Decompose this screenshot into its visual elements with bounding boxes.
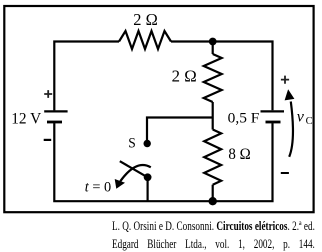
wire: top-right from resistor to corner and down to capacitor + plate — [171, 42, 273, 111]
wire: middle branch from top node down to 2 ohm resistor — [212, 42, 214, 55]
wire: left branch from battery + up to top-left corner and right to resistor — [54, 42, 119, 111]
switch lower contact dot — [144, 173, 152, 181]
svg-text:12 V: 12 V — [11, 111, 41, 128]
svg-text:0,5 F: 0,5 F — [228, 109, 260, 126]
battery 12V: positive long plate — [44, 110, 67, 112]
vC reference curved arrow shaft — [289, 102, 293, 157]
svg-text:2 Ω: 2 Ω — [133, 10, 158, 29]
battery - polarity mark — [44, 139, 52, 141]
battery + polarity mark — [44, 90, 52, 98]
switch S blade (open, tilted left) — [120, 161, 148, 177]
vC arrow head — [285, 89, 295, 100]
svg-text:2 Ω: 2 Ω — [172, 67, 197, 86]
battery 12V: negative short plate — [47, 121, 62, 124]
switch arrow head — [115, 179, 125, 189]
svg-text:8 Ω: 8 Ω — [228, 144, 250, 163]
citation line 2 — [112, 237, 315, 252]
capacitor + polarity mark — [281, 76, 289, 84]
capacitor 0.5F: bottom short plate — [266, 121, 281, 124]
svg-text:v: v — [297, 109, 305, 126]
wire: middle branch between 2 ohm and 8 ohm resistors through node — [212, 102, 214, 130]
resistor 8 ohm (vertical) — [204, 130, 221, 185]
svg-text:S: S — [128, 136, 136, 152]
wire: switch branch from middle node left and down to upper contact — [147, 118, 213, 141]
junction node dot (bottom, 8 ohm to bottom wire) — [209, 197, 217, 205]
capacitor 0.5F: top long plate — [261, 110, 285, 112]
svg-text:C: C — [306, 116, 313, 127]
wire: bottom loop from battery - terminal, along bottom, up to capacitor - plate — [54, 123, 272, 201]
resistor 2 ohm (top horizontal) — [119, 31, 171, 49]
wire: from switch lower contact down to bottom wire — [147, 177, 149, 201]
wire: middle branch from 8 ohm resistor down to bottom node — [212, 185, 214, 202]
svg-text:t = 0: t = 0 — [85, 180, 111, 196]
resistor 2 ohm (middle vertical) — [204, 54, 222, 102]
citation line 1 — [112, 219, 315, 234]
switch actuation curved arrow (t=0) — [120, 165, 151, 181]
capacitor - polarity mark — [281, 172, 289, 174]
switch upper contact dot — [144, 140, 151, 147]
junction node dot (top, between 2 ohm resistors) — [209, 38, 217, 46]
